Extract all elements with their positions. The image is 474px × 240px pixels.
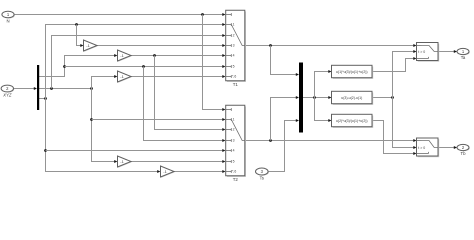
Fcn block f2 bbox=[332, 91, 374, 105]
node sign branch bbox=[391, 96, 394, 99]
wire z to gain G5 bbox=[46, 99, 161, 174]
svg-text:2: 2 bbox=[233, 34, 235, 38]
inport 2 XYZ bbox=[1, 85, 14, 97]
wire Fcn2 out trunk bbox=[372, 97, 393, 99]
node -x branch bbox=[153, 54, 156, 57]
outport 1 Ta bbox=[457, 48, 470, 60]
node x branch 2 bbox=[142, 65, 145, 68]
svg-text:Ts: Ts bbox=[260, 175, 264, 180]
wire N to mux2 control bbox=[203, 15, 226, 112]
svg-text:1: 1 bbox=[233, 118, 235, 122]
svg-text:5: 5 bbox=[233, 65, 235, 69]
wire sign to switch1 in2 bbox=[393, 50, 417, 98]
svg-text:1: 1 bbox=[233, 23, 235, 27]
wire y to gain G4 bbox=[92, 89, 118, 164]
svg-text:4: 4 bbox=[233, 54, 235, 58]
wire N to mux1 control bbox=[14, 13, 226, 16]
wire y to mux1 port2 bbox=[52, 34, 226, 89]
gain G1 -1 bbox=[84, 40, 98, 52]
wire demux out1 x to gain G2 bbox=[39, 54, 117, 77]
wire z to mux1 port1 bbox=[46, 23, 226, 99]
svg-text:T2: T2 bbox=[233, 177, 239, 182]
multiport switch T2 bbox=[226, 105, 246, 182]
wire y to gain G3 bbox=[92, 75, 118, 89]
wire gain G1 out to mux1 port3 bbox=[97, 44, 226, 47]
node y branch tree bbox=[90, 87, 93, 90]
demux XYZ bbox=[37, 65, 39, 110]
switch SW2 bbox=[417, 138, 440, 157]
svg-text:T1: T1 bbox=[233, 82, 239, 87]
wire u to Fcn3 bbox=[315, 98, 332, 123]
wire mux3 out to Fcn2 bbox=[303, 96, 332, 99]
outport 2 Tb bbox=[457, 144, 470, 156]
wire Ts to mux3 port3 bbox=[268, 119, 299, 172]
node N branch bbox=[201, 13, 204, 16]
wire z to mux2 port4 bbox=[46, 149, 226, 152]
wire Fcn3 out to switch2 in3 bbox=[372, 121, 417, 156]
wire demux out2 y trunk bbox=[39, 88, 91, 90]
svg-text:XYZ: XYZ bbox=[2, 92, 12, 97]
svg-text:4: 4 bbox=[233, 149, 235, 153]
wire XYZ to demux bbox=[14, 87, 37, 90]
svg-text:Tb: Tb bbox=[460, 151, 466, 156]
wire mux2 out to switch2 in1 bbox=[245, 139, 417, 142]
gain G5 -1 bbox=[161, 166, 175, 178]
svg-text:3: 3 bbox=[233, 44, 235, 48]
multiport switch T1 bbox=[226, 10, 246, 87]
node u branch bbox=[313, 96, 316, 99]
svg-text:t > 0: t > 0 bbox=[418, 146, 425, 150]
Fcn block f1 bbox=[332, 65, 374, 79]
wire Fcn1 out to switch1 in3 bbox=[372, 57, 417, 72]
wire -x to mux2 port2 bbox=[155, 56, 226, 132]
svg-text:u(3)-u(2)-u(1): u(3)-u(2)-u(1) bbox=[341, 96, 362, 100]
inport 1 N bbox=[2, 11, 15, 23]
wire gain G5 out to mux2 port6 bbox=[174, 170, 226, 173]
node T2 branch bbox=[269, 139, 272, 142]
wire z to gain G1 bbox=[77, 25, 84, 48]
svg-text:t > 0: t > 0 bbox=[418, 50, 425, 54]
switch SW1 bbox=[417, 43, 440, 62]
svg-text:5: 5 bbox=[233, 160, 235, 164]
svg-text:u(2)*u(3)/(u(1)+u(2)): u(2)*u(3)/(u(1)+u(2)) bbox=[336, 119, 368, 123]
svg-text:Ta: Ta bbox=[461, 55, 466, 60]
node y branch up bbox=[50, 87, 53, 90]
node x branch bbox=[63, 65, 66, 68]
gain G4 -1 bbox=[118, 156, 132, 168]
node T1 branch bbox=[269, 44, 272, 47]
wire T2 to mux3 port2 bbox=[271, 96, 300, 141]
svg-text:3: 3 bbox=[233, 139, 235, 143]
inport 3 Ts bbox=[255, 168, 268, 180]
wire y to mux2 port1 bbox=[92, 118, 226, 121]
wire sign to switch2 in2 bbox=[393, 98, 417, 150]
svg-text:u(1)*u(3)/(u(1)+u(2)): u(1)*u(3)/(u(1)+u(2)) bbox=[336, 70, 368, 74]
gain G2 -1 bbox=[118, 50, 132, 62]
wire x to mux1 port5 bbox=[65, 65, 226, 68]
gain G3 -1 bbox=[118, 71, 132, 83]
node z branch gain1 bbox=[75, 23, 78, 26]
node y branch mid bbox=[90, 118, 93, 121]
svg-text:2: 2 bbox=[233, 128, 235, 132]
wire T1 to mux3 port1 bbox=[271, 46, 300, 77]
node z junction bbox=[44, 97, 47, 100]
wire mux1 out to switch1 in1 bbox=[245, 44, 417, 47]
wire u to Fcn1 bbox=[315, 70, 332, 98]
wire switch2 to outport Tb bbox=[438, 146, 457, 149]
wire gain G2 out to mux1 port4 bbox=[131, 54, 226, 57]
svg-text:N: N bbox=[6, 18, 9, 23]
wire demux out3 z stub bbox=[39, 98, 45, 100]
wire x to mux2 port3 bbox=[144, 67, 226, 143]
wire gain G3 out to mux1 port6 bbox=[131, 75, 226, 78]
svg-text:*,6: *,6 bbox=[232, 170, 236, 174]
node z branch mux2 bbox=[44, 149, 47, 152]
Fcn block f3 bbox=[332, 114, 374, 128]
svg-text:*,6: *,6 bbox=[232, 75, 236, 79]
wire switch1 to outport Ta bbox=[438, 50, 457, 53]
wire gain G4 out to mux2 port5 bbox=[131, 160, 226, 163]
mux U bbox=[299, 63, 303, 133]
